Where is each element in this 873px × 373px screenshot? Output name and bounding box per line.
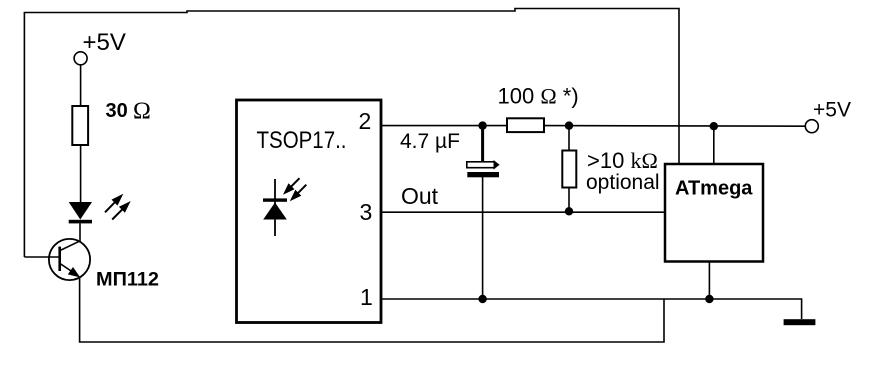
svg-text:Ω: Ω: [133, 99, 151, 125]
svg-text:TSOP17..: TSOP17..: [257, 127, 347, 154]
svg-text:+5V: +5V: [83, 29, 126, 56]
svg-text:Out: Out: [401, 183, 439, 209]
svg-text:3: 3: [360, 199, 373, 225]
svg-text:ATmega: ATmega: [675, 178, 753, 200]
svg-text:100 Ω *): 100 Ω *): [498, 84, 579, 109]
svg-text:optional: optional: [586, 171, 660, 194]
svg-text:+5V: +5V: [813, 99, 851, 122]
svg-text:МП112: МП112: [96, 270, 159, 291]
svg-text:2: 2: [359, 108, 372, 134]
svg-text:1: 1: [360, 284, 373, 310]
svg-text:30: 30: [106, 100, 128, 122]
svg-text:>10 kΩ: >10 kΩ: [587, 148, 658, 173]
svg-text:4.7 µF: 4.7 µF: [400, 130, 460, 153]
